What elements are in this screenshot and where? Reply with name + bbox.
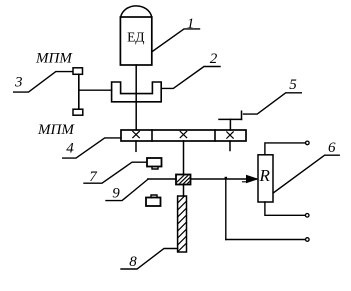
wire shaft motor to gearbox [135, 65, 137, 130]
МПМ vertical bar [78, 74, 80, 109]
wire leader9 to nut [148, 178, 176, 180]
wire R top lead [265, 143, 306, 155]
limit switch 7 plunger [152, 167, 158, 170]
label 1 leader [152, 29, 199, 52]
svg-text:9: 9 [112, 186, 120, 202]
bearing cross X1 [133, 131, 140, 137]
shaft stub below right [229, 141, 231, 151]
rack 8 hatched bar [178, 196, 187, 252]
svg-text:МПМ: МПМ [35, 51, 73, 67]
lead screw upper shaft [183, 141, 185, 175]
wire branch to terminal [226, 239, 306, 241]
motor U1 (ЕД) body [120, 17, 151, 65]
label 5 leader [244, 93, 302, 114]
svg-text:8: 8 [129, 254, 137, 270]
contact 5 tick [241, 111, 243, 119]
motor U1 (ЕД) dome [121, 6, 152, 17]
wire R bottom lead [265, 202, 305, 215]
lead screw lower shaft [183, 185, 185, 197]
terminal circle middle [305, 214, 309, 218]
rack 8 hatching [178, 196, 187, 252]
bearing cross X2 [180, 131, 187, 137]
coupling 2 (fork) [112, 82, 162, 102]
potentiometer R box [258, 155, 273, 202]
gearbox divider right [214, 130, 216, 141]
wire coupling right to leader 2 [161, 67, 220, 89]
svg-text:5: 5 [289, 77, 297, 93]
limit switch 7 upper box [147, 158, 162, 167]
shaft stub below left [135, 141, 137, 151]
limit switch lower plunger [151, 195, 157, 198]
wire branch down [225, 179, 227, 240]
terminal circle bottom [306, 238, 310, 242]
label 8 leader [121, 249, 178, 270]
label 9 leader [106, 179, 148, 200]
svg-text:1: 1 [187, 16, 195, 32]
limit switch lower box [146, 198, 161, 207]
label 6 leader [273, 155, 339, 193]
wire nut to potentiometer [191, 178, 257, 180]
svg-text:МПМ: МПМ [37, 122, 75, 138]
arrow tail dash [243, 181, 248, 183]
svg-text:6: 6 [328, 140, 336, 156]
gearbox 4 housing [121, 130, 246, 141]
bearing cross X3 [227, 132, 233, 138]
contact 5 stub [229, 119, 231, 130]
svg-text:R: R [259, 166, 271, 185]
nut 9 hatched block [176, 175, 191, 185]
МПМ upper square terminal top [73, 68, 83, 75]
arrow wiper head [246, 175, 257, 182]
terminal circle top [306, 141, 310, 145]
label 4 leader [63, 138, 121, 158]
gearbox divider left [151, 130, 153, 141]
contact 5 bar [219, 118, 242, 120]
label 7 leader [84, 162, 147, 183]
junction dot [225, 177, 228, 179]
label 3 leader [14, 72, 73, 93]
wire МПМ bar to coupling [79, 89, 112, 91]
МПМ lower square terminal [73, 109, 83, 115]
nut 9 hatching [177, 175, 190, 186]
svg-text:2: 2 [210, 51, 218, 67]
svg-text:3: 3 [14, 75, 23, 91]
svg-text:4: 4 [66, 141, 74, 157]
svg-text:ЕД: ЕД [127, 30, 144, 45]
